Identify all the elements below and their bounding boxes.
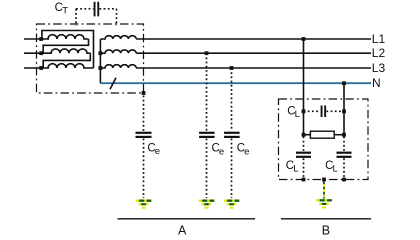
wire resistor right: [334, 134, 344, 136]
node L3 tap: [230, 66, 234, 70]
node secondary star row 3: [99, 66, 103, 70]
transformer shield box: [37, 24, 144, 93]
node primary phase 1: [39, 37, 43, 41]
node box B bottom center: [322, 178, 326, 182]
svg-text:L3: L3: [372, 61, 386, 75]
wire CL left lower lead: [303, 158, 305, 179]
wire winding 2 return: [43, 53, 90, 68]
capacitor Ce2: [199, 132, 215, 134]
node CL top left: [302, 109, 306, 113]
wire phase input 1: [24, 38, 49, 40]
node CL top right: [342, 109, 346, 113]
capacitor CL top: [321, 106, 323, 118]
wire winding 1 return: [43, 39, 88, 53]
svg-text:L1: L1: [372, 32, 386, 46]
node primary phase 3: [39, 66, 43, 70]
transformer secondary winding 1: [100, 36, 136, 39]
wire Ce2 lower lead: [206, 139, 208, 199]
svg-text:e: e: [244, 146, 249, 157]
wire N drop to box B: [343, 83, 345, 136]
node resistor left: [302, 133, 306, 137]
svg-text:L: L: [293, 164, 298, 175]
svg-text:L: L: [333, 164, 338, 175]
wire CL right lower lead: [343, 158, 345, 179]
node primary phase 2: [39, 51, 43, 55]
node resistor right: [342, 133, 346, 137]
wire Ce1 upper lead: [143, 96, 145, 132]
wire L1 drop to box B: [303, 39, 305, 137]
capacitor CT: [94, 2, 96, 17]
node secondary star row 2: [99, 51, 103, 55]
wire Ce1 lower lead: [143, 139, 145, 199]
filter box B: [279, 99, 369, 180]
neutral marker slash: [110, 78, 116, 90]
node box B bottom right: [342, 178, 346, 182]
wire ground lead B yellow: [323, 184, 325, 198]
svg-text:L: L: [295, 109, 300, 120]
node L2 tap: [205, 51, 209, 55]
wire line L3: [136, 67, 371, 69]
wire Ce3 lower lead: [231, 139, 233, 199]
wire secondary star bus: [99, 39, 101, 83]
node shield box corner: [142, 91, 146, 95]
capacitor CL left: [296, 152, 311, 154]
wire CL top left lead: [304, 110, 321, 112]
transformer primary winding 1: [48, 35, 89, 39]
wire Ce3 upper lead: [231, 68, 233, 131]
wire line L2: [136, 52, 371, 54]
wire phase input 2: [24, 52, 52, 54]
transformer secondary winding 2: [100, 50, 136, 53]
node N tap: [342, 81, 346, 85]
capacitor Ce3: [224, 132, 240, 134]
wire phase input 3: [24, 67, 49, 69]
resistor R1: [310, 131, 334, 138]
wire CT right drop: [116, 9, 118, 26]
transformer primary winding 2: [51, 49, 90, 53]
wire Ce2 upper lead: [206, 53, 208, 131]
section A underline: [118, 218, 256, 220]
ground earth B: [316, 199, 332, 208]
ground earth 3: [224, 200, 240, 209]
ground earth 2: [199, 200, 215, 209]
wire resistor left: [304, 134, 311, 136]
wire ground lead B green: [323, 182, 325, 199]
ground earth 1: [136, 200, 152, 209]
wire primary delta outer loop: [42, 31, 94, 69]
node box B bottom left: [302, 178, 306, 182]
wire line L1: [136, 38, 371, 40]
wire CT right lead: [99, 8, 116, 10]
svg-text:T: T: [62, 6, 68, 17]
wire CT left lead: [76, 8, 93, 10]
wire CL right upper lead: [343, 137, 345, 152]
transformer secondary winding 3: [100, 65, 136, 68]
wire neutral N: [100, 82, 371, 84]
wire CL left upper lead: [303, 137, 305, 152]
transformer primary winding 3: [48, 64, 94, 68]
capacitor CL right: [337, 152, 352, 154]
svg-text:N: N: [372, 76, 381, 90]
svg-text:L2: L2: [372, 46, 386, 60]
wire CL top right lead: [326, 110, 344, 112]
capacitor Ce1: [136, 132, 152, 134]
svg-text:B: B: [322, 224, 330, 238]
svg-text:e: e: [155, 146, 160, 157]
svg-text:A: A: [178, 224, 187, 238]
svg-text:e: e: [219, 146, 224, 157]
wire CT left drop: [75, 9, 77, 26]
node L1 tap: [302, 37, 306, 41]
section B underline: [281, 218, 371, 220]
